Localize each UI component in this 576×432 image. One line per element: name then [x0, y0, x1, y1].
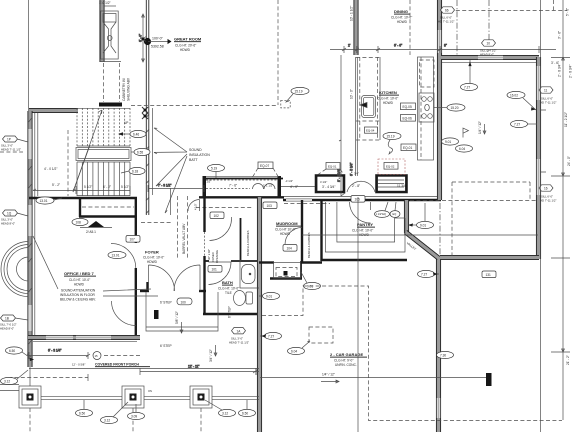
label GREAT ROOM — [174, 37, 202, 53]
svg-text:6' - 6": 6' - 6" — [394, 44, 402, 48]
hex tag 10 — [480, 40, 496, 57]
svg-text:3/4": 3/4" — [354, 172, 359, 176]
tag oval 7.27 garage NE — [418, 270, 440, 277]
stair direction diagonal — [73, 110, 102, 192]
svg-text:PANTRY: PANTRY — [357, 222, 373, 227]
svg-text:MUDROOM: MUDROOM — [276, 221, 298, 226]
node marker X at dim — [140, 37, 146, 42]
svg-text:7.27: 7.27 — [514, 122, 520, 126]
tiny dims at top of chimney — [99, 1, 116, 6]
svg-text:3.12: 3.12 — [4, 379, 10, 383]
svg-text:12' - 0 5/8": 12' - 0 5/8" — [72, 363, 85, 367]
porch beams — [41, 396, 259, 399]
wall: chimney cap bar — [99, 103, 122, 107]
svg-text:15: 15 — [95, 354, 99, 358]
window garage east lower — [437, 398, 441, 418]
door arc hall door 102 — [210, 217, 232, 241]
cabinetry dashed run below chimney — [103, 63, 105, 102]
svg-text:16.02: 16.02 — [510, 93, 518, 97]
leader office sound note — [33, 236, 58, 289]
window office south 2 — [76, 336, 111, 340]
tag oval 3.12 col3 — [205, 400, 236, 417]
dashed corner mark right of great room — [553, 0, 555, 11]
wall: kitchen east wall — [437, 0, 441, 200]
svg-text:OFFICE / BED 7: OFFICE / BED 7 — [64, 271, 95, 276]
svg-text:CABINETRY W/: CABINETRY W/ — [122, 78, 126, 101]
wall: bath south — [203, 313, 261, 315]
dashed stair guide — [67, 130, 69, 196]
svg-text:2' - 8": 2' - 8" — [352, 184, 360, 188]
svg-text:EQ-02: EQ-02 — [386, 164, 395, 168]
office south wall inner face line — [33, 340, 137, 342]
tag oval 9.01 mudroom — [301, 272, 321, 290]
tag box EQ-01 kitchen right — [401, 144, 416, 151]
porch column 1 — [19, 386, 41, 408]
wall hatch ticks on great room west wall — [146, 114, 149, 214]
svg-text:HD 7'-11 1/2": HD 7'-11 1/2" — [438, 20, 454, 24]
svg-text:13.01: 13.01 — [40, 199, 48, 203]
svg-text:3 1/2": 3 1/2" — [320, 180, 327, 184]
svg-text:6.04: 6.04 — [291, 349, 297, 353]
tag oval 3.09 col2b — [128, 404, 145, 420]
svg-text:105: 105 — [355, 198, 361, 202]
door arc: bath door — [209, 262, 232, 285]
svg-text:4' - 0 1/2": 4' - 0 1/2" — [44, 167, 57, 171]
leader office sound note right — [103, 289, 158, 296]
svg-text:FOYER: FOYER — [145, 250, 159, 255]
wall: mudroom east — [301, 200, 303, 263]
wall: great room chimney west wall — [100, 0, 104, 62]
tag ovals EQ pantry — [375, 202, 401, 217]
fireplace F1 — [101, 11, 119, 59]
svg-text:CLG HT. 10'-0": CLG HT. 10'-0" — [377, 97, 398, 101]
tag oval 6.18 — [121, 167, 145, 174]
svg-text:HDWD: HDWD — [383, 101, 394, 105]
svg-text:10: 10 — [487, 41, 491, 45]
svg-text:1Q: 1Q — [7, 211, 12, 215]
tag oval 9.01 nook — [442, 138, 459, 145]
stair upper flight treads — [77, 108, 130, 146]
window W-left-2 — [28, 205, 32, 236]
window W-left-3 — [28, 305, 32, 331]
svg-text:OPENING: OPENING — [215, 250, 219, 263]
kitchen island — [356, 57, 380, 140]
svg-text:12' - 11": 12' - 11" — [188, 365, 199, 369]
porch column dashed centers — [30, 408, 201, 432]
circle tag 15 — [93, 352, 101, 360]
svg-text:SOUND ATTENUATION: SOUND ATTENUATION — [61, 289, 96, 293]
wall: stair north wall — [29, 108, 78, 112]
svg-text:TILE: TILE — [225, 291, 232, 295]
svg-text:16: 16 — [544, 186, 548, 190]
ceiling flag nook — [463, 128, 469, 138]
svg-text:COVERED FRONT PORCH: COVERED FRONT PORCH — [95, 363, 139, 367]
wall: garage north wall west jog — [259, 261, 274, 263]
svg-text:CLG HT. 10'-0": CLG HT. 10'-0" — [391, 16, 412, 20]
svg-text:6' - 3 1/4": 6' - 3 1/4" — [48, 349, 61, 353]
tag box 101 — [208, 266, 222, 273]
garage center line — [357, 197, 359, 432]
hall seat top thin line + dashes — [203, 176, 281, 188]
svg-text:11: 11 — [544, 88, 548, 92]
svg-text:7.27: 7.27 — [464, 85, 470, 89]
mudroom closet — [274, 263, 301, 279]
door arc mudroom — [285, 228, 302, 245]
svg-text:1 1/2"EQ: 1 1/2"EQ — [376, 212, 386, 216]
svg-text:BATT: BATT — [189, 158, 199, 162]
wall: garage east wall — [436, 256, 440, 432]
svg-text:5.19: 5.19 — [211, 166, 217, 170]
red dashed around EQ-02 — [378, 159, 405, 175]
svg-text:13.01: 13.01 — [112, 253, 120, 257]
tag oval 3.12 col2 — [101, 402, 129, 424]
label BATH — [218, 280, 239, 295]
svg-text:CLG HT. 10'-0": CLG HT. 10'-0" — [69, 278, 90, 282]
wall: mud closet east — [300, 262, 302, 278]
svg-text:3.09: 3.09 — [131, 414, 137, 418]
svg-text:100'-0": 100'-0" — [152, 37, 164, 41]
porch column 3 — [190, 386, 212, 408]
svg-text:3.12: 3.12 — [222, 411, 228, 415]
wall: office closet west — [79, 198, 81, 217]
svg-text:SHELVING ABV: SHELVING ABV — [127, 77, 131, 101]
casement arcs hall seat — [253, 184, 276, 190]
label KITCHEN — [377, 90, 399, 105]
dashed porch line — [104, 355, 140, 357]
leader lines sound insulation — [154, 128, 187, 213]
svg-text:BENCH & CUBBIES: BENCH & CUBBIES — [246, 230, 250, 256]
dim texts hall top — [204, 180, 273, 188]
svg-text:UNFIN. CONC.: UNFIN. CONC. — [335, 363, 357, 367]
wall: hall south — [300, 261, 322, 263]
dashed dining centerline — [409, 0, 411, 55]
svg-text:9.01: 9.01 — [445, 140, 451, 144]
window bay C — [376, 175, 408, 194]
svg-text:1B: 1B — [5, 316, 9, 320]
thin vertical top-left property line — [28, 0, 30, 111]
svg-text:7' - 9 1/2": 7' - 9 1/2" — [158, 184, 171, 188]
svg-text:HDWD: HDWD — [147, 260, 158, 264]
tag oval 6.04 nook — [456, 145, 473, 152]
tag box EQ-06 — [401, 115, 416, 122]
svg-text:9.01: 9.01 — [266, 294, 272, 298]
label 1/4 / 12 garage slope — [321, 373, 339, 383]
svg-text:101: 101 — [212, 268, 218, 272]
wall: pantry west — [320, 200, 322, 261]
tag oval 15.19 great room — [281, 87, 309, 108]
dim line porch left — [27, 349, 90, 360]
svg-text:EQ-05: EQ-05 — [403, 105, 412, 109]
svg-text:3.12: 3.12 — [104, 418, 110, 422]
door arcs: foyer double entry doors — [149, 265, 175, 291]
tag oval 6.50 col3b — [239, 400, 256, 417]
svg-text:2 - CAR GARAGE: 2 - CAR GARAGE — [330, 352, 363, 357]
label SOUND INSULATION BATT — [189, 148, 210, 162]
label 5/8 / 12 rotated with arrow — [175, 311, 183, 333]
foyer north cased opening — [171, 188, 200, 215]
svg-text:7' - 6": 7' - 6" — [229, 184, 237, 188]
hex tag 16 — [539, 185, 556, 203]
garage door dashed header — [309, 327, 333, 343]
wall face line below — [284, 196, 438, 198]
svg-text:11 3/4": 11 3/4" — [397, 184, 407, 188]
label 3/4 / 12 rotated with arrow — [209, 345, 217, 362]
tag oval 7.27 garage W — [260, 332, 282, 339]
dashed barrel vault — [141, 222, 172, 224]
svg-text:2' - 8 3/4": 2' - 8 3/4" — [558, 64, 562, 77]
svg-text:100: 100 — [181, 300, 187, 304]
arched opening — [347, 181, 375, 192]
dashed ceiling break stepped line — [262, 286, 562, 421]
svg-text:10' - 0": 10' - 0" — [350, 89, 354, 99]
svg-text:1'-1 1/2": 1'-1 1/2" — [263, 184, 273, 188]
svg-text:103: 103 — [267, 204, 273, 208]
svg-text:INSULATION: INSULATION — [189, 153, 210, 157]
dashed great room ceiling break — [277, 0, 279, 105]
wall: pantry east wall — [404, 200, 408, 233]
window bay B — [315, 175, 345, 194]
svg-text:6.50: 6.50 — [79, 411, 85, 415]
hex tag 1A — [229, 328, 249, 345]
tag oval 7.27 nook top — [461, 60, 478, 91]
wall: nook north — [441, 55, 539, 59]
hex tag 1B — [0, 315, 28, 331]
svg-text:6.18: 6.18 — [132, 169, 138, 173]
tag oval 13.01 office closet — [36, 197, 62, 204]
svg-text:3/4" / 12": 3/4" / 12" — [209, 349, 213, 362]
tag oval 108 — [72, 218, 88, 225]
label PANTRY — [352, 222, 375, 237]
wall: great room west wall — [146, 0, 149, 215]
tag oval 6.50 left — [6, 347, 30, 357]
svg-text:8": 8" — [444, 44, 447, 48]
dim line between bays — [281, 186, 315, 188]
svg-text:6.50: 6.50 — [242, 411, 248, 415]
wall: diagonal valley wall — [404, 230, 440, 259]
kitchen dim vertical — [337, 55, 345, 196]
svg-text:15.19: 15.19 — [387, 134, 395, 138]
elevation marker great room — [144, 37, 172, 49]
svg-text:15.19: 15.19 — [295, 89, 303, 93]
label FOYER — [143, 250, 164, 265]
wall: bath west wall upper — [203, 178, 205, 232]
svg-text:6' STEP: 6' STEP — [160, 301, 172, 305]
svg-text:CLG HT. 10'-0": CLG HT. 10'-0" — [218, 287, 239, 291]
label MUDROOM — [275, 221, 301, 236]
hex tag 11 — [539, 87, 556, 105]
svg-text:HEAD 8'-0": HEAD 8'-0" — [0, 327, 14, 331]
label 36x96 CASED OPENING rotated — [207, 249, 219, 263]
bath toilet — [234, 291, 253, 306]
svg-text:3' - 4 3/4": 3' - 4 3/4" — [322, 185, 335, 189]
right wall ticks — [540, 110, 546, 172]
dashed hall ceiling break — [196, 207, 253, 209]
dashed ridge line top right — [443, 10, 567, 12]
cooktop — [419, 93, 434, 122]
tag box 102 — [210, 212, 224, 219]
tag oval 6.46 — [118, 130, 146, 137]
svg-text:15.20: 15.20 — [451, 106, 459, 110]
tag oval 15.19 cooktop — [434, 104, 465, 111]
wall: office east wall lower — [135, 268, 137, 339]
dim line stair bottom — [33, 186, 130, 194]
window nook east 1 — [537, 66, 541, 100]
svg-text:10' - 1 1/2": 10' - 1 1/2" — [350, 6, 354, 21]
porch column 2 — [122, 386, 144, 408]
svg-text:8' - 1 3/4": 8' - 1 3/4" — [337, 169, 341, 182]
svg-text:1/4" / 12": 1/4" / 12" — [322, 373, 335, 377]
tag oval 6.55 — [131, 148, 150, 155]
hex tag 1P — [0, 136, 28, 152]
svg-text:BELOW & CEILING ABV.: BELOW & CEILING ABV. — [60, 298, 96, 302]
dim line vertical chimney — [139, 14, 145, 62]
label OFFICE / BED 7 — [60, 271, 96, 302]
pantry shelving — [325, 202, 405, 252]
tag box EQ-05 — [401, 103, 416, 110]
svg-text:EQ-01: EQ-01 — [328, 164, 337, 168]
svg-text:102: 102 — [214, 214, 220, 218]
svg-text:1/4" / 12": 1/4" / 12" — [478, 121, 482, 134]
svg-text:EQ-07: EQ-07 — [260, 164, 269, 168]
svg-text:CLG HT. 9'-0": CLG HT. 9'-0" — [334, 359, 353, 363]
window nook north — [478, 56, 503, 60]
sill X marks at stair corner — [142, 107, 148, 119]
wall: long interior wall with windows (kitchen south) — [283, 199, 441, 201]
svg-text:UP: UP — [124, 121, 128, 125]
dashed porch lower — [8, 374, 88, 381]
right dim line vertical — [551, 0, 570, 420]
svg-text:EQ-01: EQ-01 — [403, 146, 412, 150]
svg-text:6.46: 6.46 — [133, 132, 139, 136]
wall: nook east — [536, 57, 540, 259]
tag box 104 — [283, 245, 297, 252]
svg-text:HD 7'-11 1/2": HD 7'-11 1/2" — [540, 199, 556, 203]
bay window arcs at left exterior wall — [1, 242, 29, 297]
dim line foyer top — [148, 184, 204, 193]
stair landing — [76, 148, 131, 161]
dim line kitchen top — [330, 44, 556, 54]
dash-dot patio edge — [439, 203, 441, 255]
svg-text:EQ-06: EQ-06 — [403, 117, 412, 121]
svg-text:BENCH & CUBBIES: BENCH & CUBBIES — [307, 232, 311, 258]
svg-text:3' - 6": 3' - 6" — [558, 31, 562, 39]
window dim texts row — [285, 172, 407, 190]
tag oval 7.30 garage E — [437, 351, 454, 358]
svg-text:CLG HT 10'-0": CLG HT 10'-0" — [275, 228, 296, 232]
svg-text:6' - 2": 6' - 2" — [103, 185, 111, 189]
tag oval 6.50 col1 — [76, 400, 93, 417]
tag oval 15.19 island — [383, 132, 401, 154]
window office south 1 — [46, 336, 73, 340]
svg-text:2' - 8 3/4": 2' - 8 3/4" — [569, 65, 573, 78]
tag box EQ-07 — [252, 162, 279, 178]
svg-text:21' - 2": 21' - 2" — [566, 355, 570, 365]
svg-text:KITCHEN: KITCHEN — [379, 90, 397, 95]
svg-text:-3 1/2": -3 1/2" — [285, 179, 293, 183]
svg-text:INSULATION IN FLOOR: INSULATION IN FLOOR — [60, 293, 96, 297]
tag box EQ-01 window — [318, 163, 344, 175]
porch dim line 12-11 — [140, 365, 259, 376]
section triangle 2/A5.1 — [80, 221, 112, 234]
window mudroom north — [286, 198, 312, 202]
window nook west — [438, 30, 442, 53]
svg-text:6' STEP: 6' STEP — [160, 344, 172, 348]
svg-text:5392.58: 5392.58 — [151, 45, 164, 49]
svg-text:ON: ON — [148, 389, 152, 393]
svg-text:BATH: BATH — [222, 280, 233, 285]
dashdot nook lines — [456, 0, 458, 56]
svg-text:CLG HT. 10'-0": CLG HT. 10'-0" — [352, 229, 373, 233]
cased opening dashed in bath west wall — [204, 232, 206, 256]
wall: great room east wall — [354, 0, 358, 55]
svg-text:107: 107 — [130, 238, 136, 242]
svg-text:4 1/2": 4 1/2" — [194, 203, 198, 210]
svg-text:HEAD 8'-0": HEAD 8'-0" — [1, 222, 15, 226]
label COVERED FRONT PORCH — [72, 363, 150, 367]
tag oval 3.12 left lower — [1, 370, 29, 385]
svg-text:1'-0 1/2": 1'-0 1/2" — [99, 1, 111, 5]
tag box 107 — [126, 236, 140, 243]
svg-text:HEAD 7'-11 1/2": HEAD 7'-11 1/2" — [229, 341, 249, 345]
svg-text:6.55: 6.55 — [137, 150, 143, 154]
counter line below island — [350, 140, 358, 176]
svg-text:1P: 1P — [7, 137, 11, 141]
svg-text:CLG HT. 20'-6": CLG HT. 20'-6" — [175, 44, 196, 48]
svg-text:5 1/2": 5 1/2" — [121, 185, 129, 189]
wall: mud closet south — [270, 277, 302, 279]
tag oval 9.01 bath — [259, 292, 280, 299]
kitchen east counter band — [418, 57, 434, 160]
svg-text:104: 104 — [287, 247, 293, 251]
svg-text:66: 66 — [445, 8, 449, 12]
right rotated dims — [558, 8, 573, 365]
stair lower flight treads — [77, 162, 130, 196]
svg-text:6.04: 6.04 — [459, 147, 465, 151]
long thin line y235 — [302, 234, 538, 236]
dashed closet rod — [82, 206, 134, 208]
wall: bath north segments — [204, 260, 209, 262]
svg-text:SOUND: SOUND — [189, 148, 202, 152]
step platform foyer — [146, 292, 218, 331]
wall: nook south — [440, 255, 539, 259]
svg-text:131: 131 — [486, 273, 492, 277]
wall: front door jambs — [140, 290, 149, 292]
porch roof edge line — [29, 367, 259, 369]
svg-text:2/ A5.1: 2/ A5.1 — [86, 230, 96, 234]
solid block at foyer step — [154, 310, 159, 319]
tag oval 16.02 — [507, 91, 536, 110]
tag oval 9.01 pantry right — [408, 203, 434, 229]
wall: hall south wall — [199, 196, 284, 198]
svg-text:HD 7'-11 1/2": HD 7'-11 1/2" — [540, 101, 556, 105]
left wall inner face lines — [34, 113, 36, 336]
svg-text:5' - 2": 5' - 2" — [52, 183, 60, 187]
svg-text:4' - 0": 4' - 0" — [290, 185, 298, 189]
svg-text:11' - 2 1/2": 11' - 2 1/2" — [564, 112, 568, 127]
wall: office closet south — [79, 215, 137, 217]
leader arrowheads — [30, 62, 537, 362]
svg-text:5 1/2": 5 1/2" — [84, 185, 92, 189]
svg-text:108: 108 — [76, 220, 82, 224]
svg-text:6' - 5 3/4": 6' - 5 3/4" — [350, 163, 354, 176]
wall: office north wall — [29, 197, 137, 199]
label 2-CAR GARAGE — [330, 352, 367, 367]
right roof line — [540, 0, 542, 432]
svg-text:HEAD 7'-11 1/2": HEAD 7'-11 1/2" — [1, 148, 21, 152]
dashed patio rect — [410, 182, 538, 256]
door arc: office entry — [111, 243, 136, 268]
tag oval 6.04 garage — [288, 341, 311, 355]
